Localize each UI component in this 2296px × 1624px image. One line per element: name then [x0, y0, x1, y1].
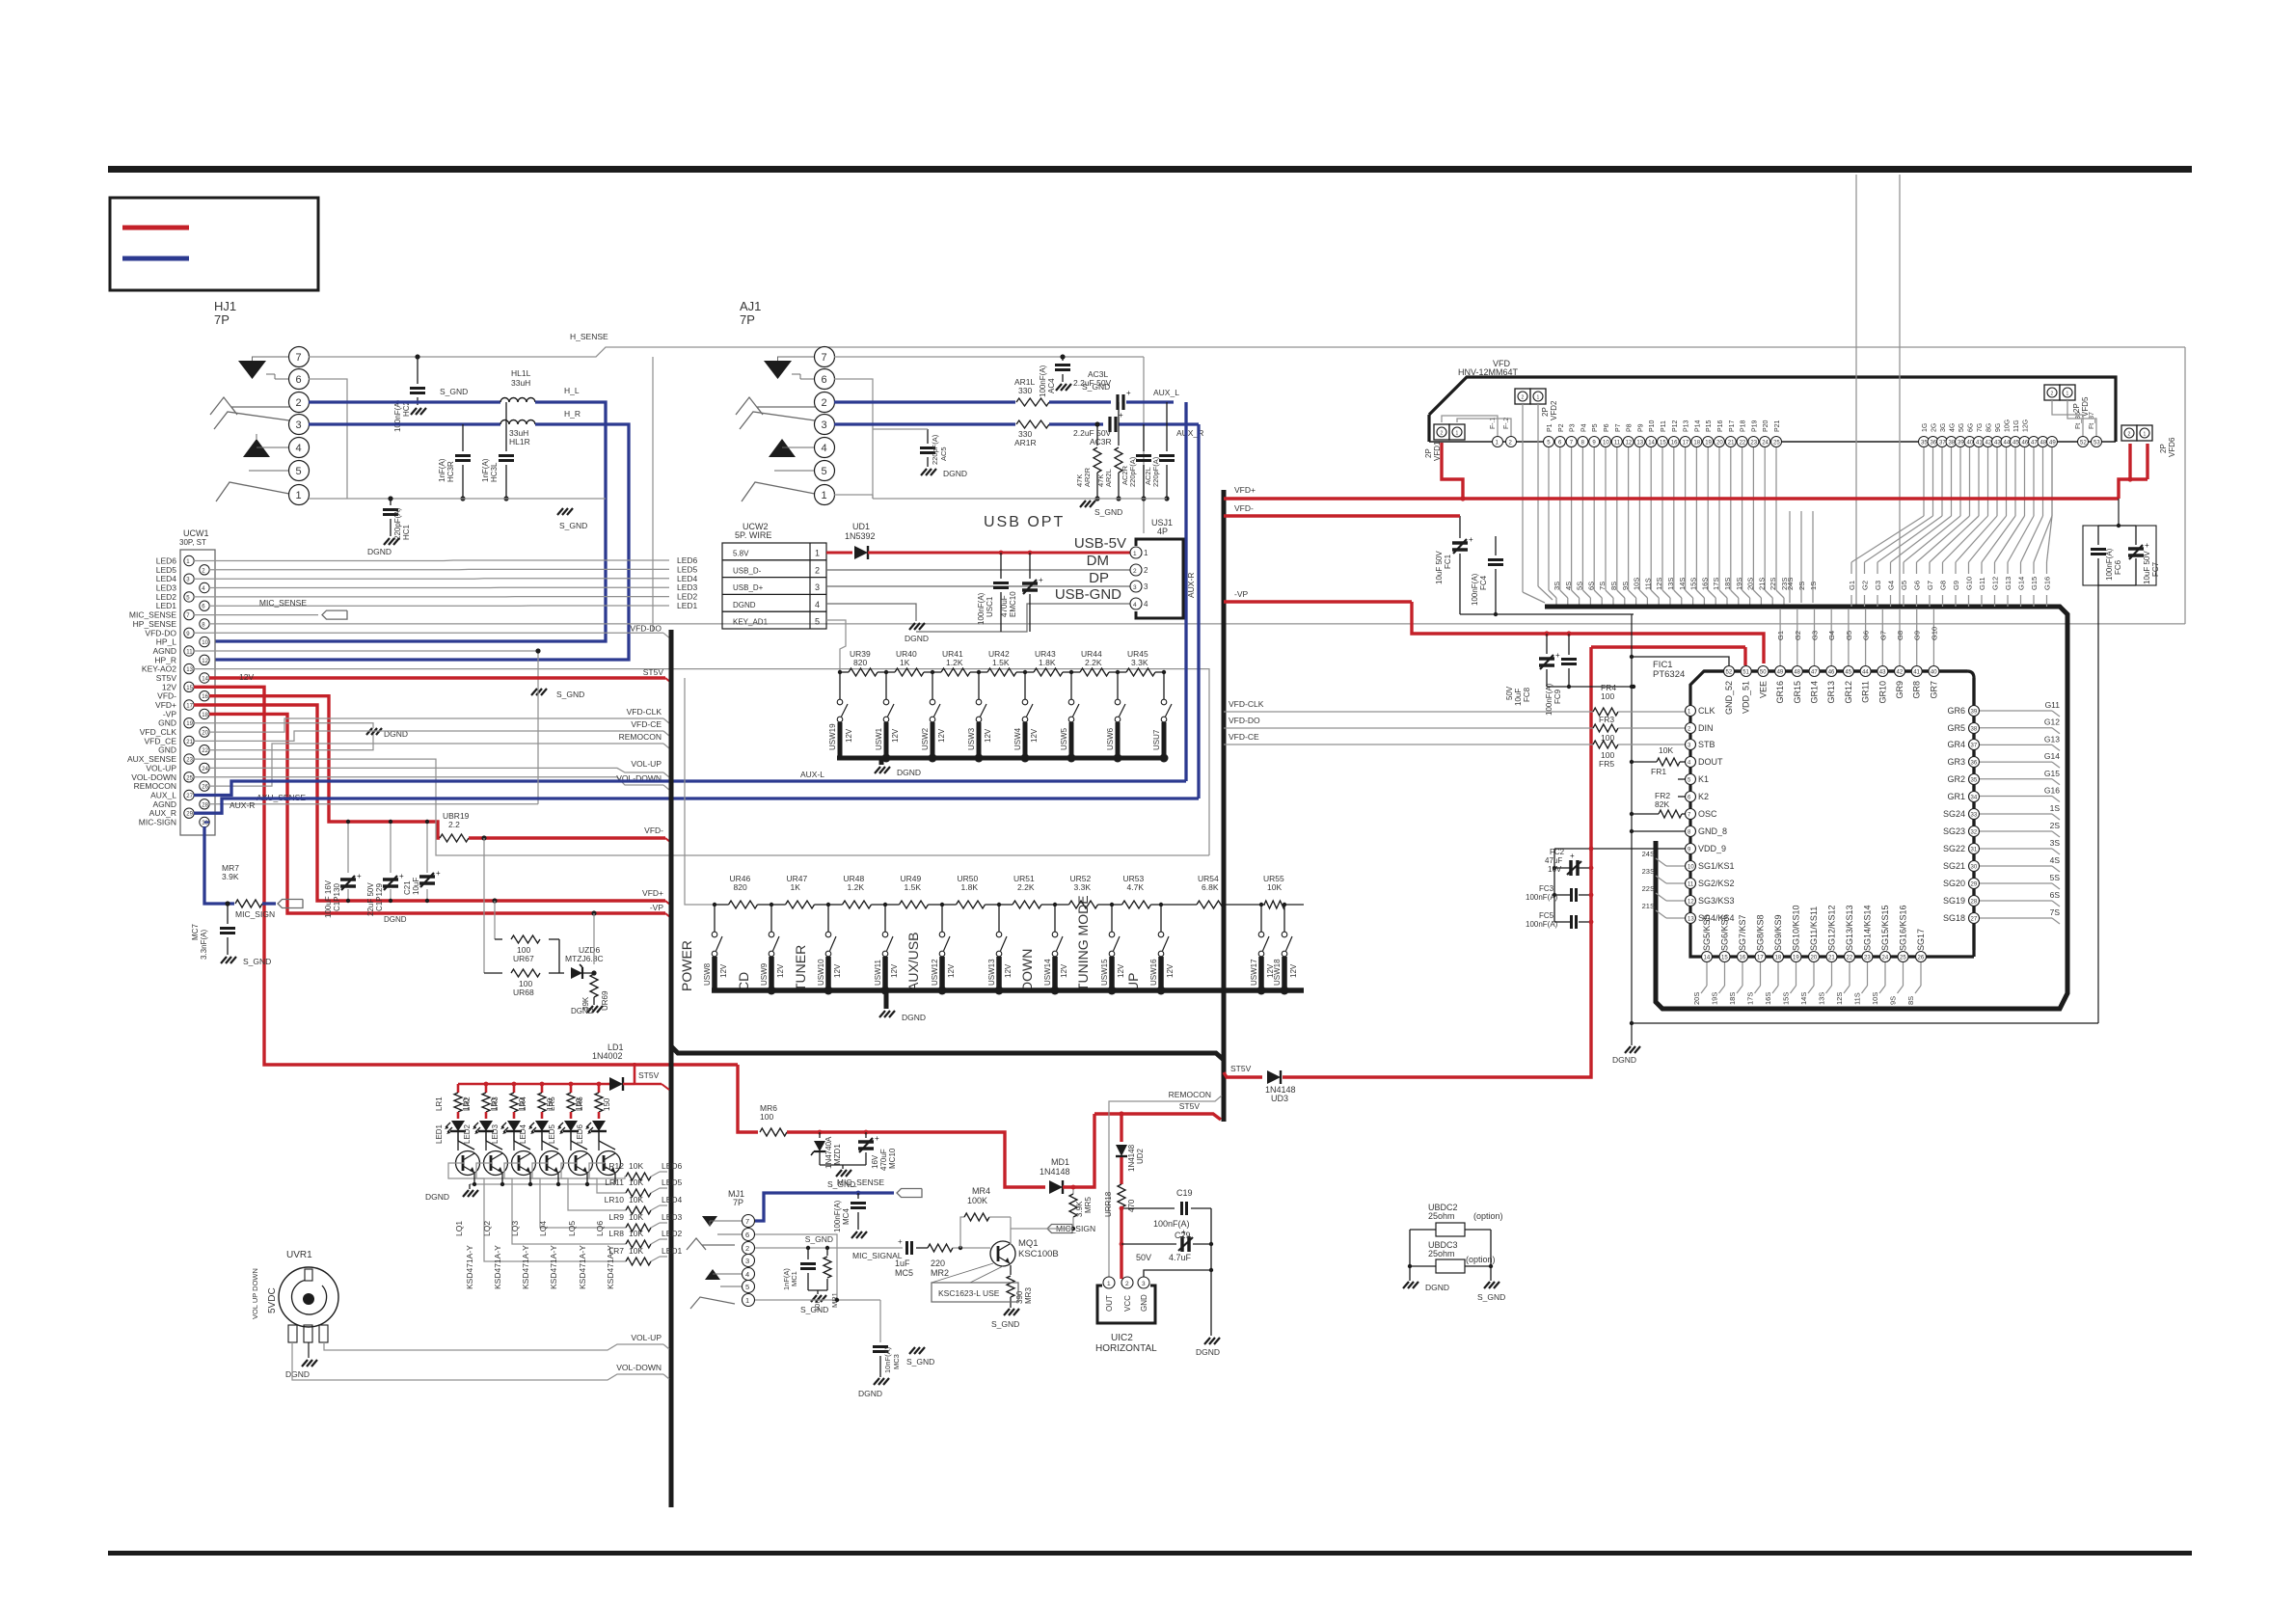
svg-text:UD1: UD1	[852, 522, 870, 531]
svg-text:KSD471A-Y: KSD471A-Y	[493, 1245, 502, 1289]
IC PT6324 pin 16 SG7/KS7	[1738, 952, 1748, 962]
svg-text:VDD_9: VDD_9	[1698, 844, 1726, 853]
resistor LR12 10K	[626, 1173, 651, 1180]
resistor FR2 82K OSC	[1632, 813, 1659, 815]
IC PT6324 pin 12 SG3/KS3	[1686, 896, 1696, 907]
svg-text:18: 18	[1775, 956, 1782, 961]
wire base LQ3	[504, 1163, 626, 1228]
svg-text:LR12: LR12	[605, 1161, 625, 1171]
capacitor MC10 470uF	[864, 1130, 869, 1135]
svg-text:GND_52: GND_52	[1724, 681, 1734, 715]
svg-text:P16: P16	[1717, 420, 1724, 432]
LED LED2	[479, 1121, 493, 1131]
svg-text:LR8: LR8	[608, 1229, 624, 1238]
svg-text:14: 14	[1648, 441, 1655, 447]
svg-text:G15: G15	[2044, 769, 2060, 778]
svg-text:VFD-: VFD-	[1234, 503, 1254, 513]
ground S_GND at AC4	[1056, 384, 1062, 391]
wire VOL-UP pin24	[209, 768, 663, 772]
svg-text:VDD_51: VDD_51	[1742, 681, 1751, 714]
IC PT6324 pin 33 SG24	[1969, 809, 1980, 820]
svg-text:1.8K: 1.8K	[961, 882, 979, 892]
switch USW11	[884, 905, 886, 932]
svg-text:FR3: FR3	[1599, 715, 1614, 724]
switch USU7	[1163, 672, 1165, 699]
svg-text:FC7: FC7	[2151, 561, 2160, 577]
ground S_GND below MC7	[221, 957, 227, 963]
svg-text:19: 19	[1793, 956, 1799, 961]
svg-text:MTZJ6.8C: MTZJ6.8C	[565, 954, 604, 963]
ground DGND UVR1	[302, 1360, 308, 1367]
svg-text:VFD+: VFD+	[642, 888, 663, 898]
resistor AR2L 47K	[1118, 402, 1120, 446]
resistor MR2 220	[916, 1247, 928, 1249]
connector UCW1 pin 6	[200, 601, 209, 610]
transistor LQ5 KSD471A-Y	[569, 1151, 593, 1176]
switch USW16	[1160, 905, 1162, 932]
svg-text:23: 23	[1750, 441, 1757, 447]
svg-text:USW19: USW19	[828, 723, 837, 750]
svg-text:SG14/KS14: SG14/KS14	[1863, 905, 1873, 951]
wire AUX-L blue vertical	[1184, 402, 1187, 781]
svg-text:1N4148: 1N4148	[1040, 1167, 1070, 1177]
ground DGND below UR69	[587, 1006, 593, 1013]
svg-text:USB_D+: USB_D+	[733, 583, 764, 592]
svg-text:DGND: DGND	[897, 768, 921, 777]
wire ST5V red pin14	[209, 676, 665, 679]
svg-text:STB: STB	[1698, 740, 1715, 749]
svg-text:P11: P11	[1661, 420, 1667, 432]
switch USW15	[1111, 905, 1113, 932]
IC UIC2 pin 3 GND	[1138, 1277, 1149, 1288]
resistor UR68 100	[511, 969, 540, 977]
wire right side 1S-7S tags	[1980, 813, 2052, 815]
bus VFD S thick	[1545, 607, 2067, 1009]
svg-text:8G: 8G	[1986, 423, 1993, 432]
svg-text:VFD-CLK: VFD-CLK	[1229, 699, 1264, 709]
IC PT6324 pin 8 GND_8	[1686, 826, 1696, 837]
svg-text:USW2: USW2	[921, 727, 930, 750]
svg-text:SG21: SG21	[1943, 861, 1965, 871]
svg-text:100: 100	[760, 1112, 773, 1122]
wire FC6 FC7 gnd down	[2098, 584, 2136, 586]
svg-text:3: 3	[815, 582, 820, 592]
svg-text:SG23: SG23	[1943, 826, 1965, 836]
svg-text:VOL-DOWN: VOL-DOWN	[616, 1363, 662, 1372]
svg-text:G12: G12	[1991, 577, 2000, 590]
resistor UR69 39K	[590, 974, 598, 997]
wire VFD2 connector leads	[1522, 404, 1524, 592]
svg-text:24: 24	[202, 767, 208, 772]
svg-text:SG17: SG17	[1916, 929, 1926, 951]
svg-text:10uF: 10uF	[412, 878, 420, 895]
wire 24S 2S 1S drops	[1789, 511, 1791, 603]
wire REMOCON pin26	[209, 744, 663, 786]
wire G-lines above chip	[1779, 609, 1781, 665]
wire HJ1 jack leads	[252, 356, 288, 358]
resistor AR2R 47K	[1096, 424, 1098, 446]
svg-text:MC10: MC10	[888, 1148, 897, 1169]
svg-text:USW8: USW8	[703, 962, 712, 986]
svg-text:+: +	[1039, 576, 1043, 584]
svg-text:7P: 7P	[733, 1198, 743, 1207]
svg-text:3.3nF(A): 3.3nF(A)	[200, 930, 208, 960]
resistor UR52 3.3K	[1055, 904, 1069, 906]
svg-text:4.7uF: 4.7uF	[1169, 1253, 1192, 1262]
svg-text:DGND: DGND	[384, 915, 407, 924]
wire VFD_CLK pin20	[209, 718, 663, 732]
svg-text:AUX_L: AUX_L	[1153, 388, 1179, 397]
svg-text:15S: 15S	[1782, 992, 1791, 1005]
svg-text:P3: P3	[1570, 423, 1577, 432]
page border top rule	[108, 166, 2192, 173]
IC PT6324 pin 27 SG18	[1969, 913, 1980, 924]
wire base LQ4	[532, 1163, 626, 1210]
svg-text:2: 2	[1144, 566, 1148, 575]
connector AJ1 pin 7	[815, 347, 835, 367]
svg-text:1: 1	[2066, 392, 2069, 397]
svg-text:FC5: FC5	[1539, 911, 1554, 920]
wire VFD+ to VFD6 connector	[2119, 479, 2147, 499]
svg-text:49: 49	[2049, 441, 2056, 447]
svg-text:MC1: MC1	[790, 1271, 798, 1286]
svg-text:20S: 20S	[1692, 992, 1701, 1005]
wire VOL-DOWN from UVR1	[292, 1342, 663, 1380]
svg-text:HC1: HC1	[402, 524, 411, 540]
svg-text:SG2/KS2: SG2/KS2	[1698, 879, 1735, 888]
svg-text:100nF(A): 100nF(A)	[1039, 365, 1047, 397]
IC PT6324 pin 44 GR11	[1860, 666, 1871, 677]
connector UCW1 pin 18	[200, 709, 209, 718]
wire USB-5V red to USJ1	[868, 552, 1130, 555]
svg-text:G6: G6	[1913, 581, 1922, 590]
resistor FR1 10K DOUT	[1632, 761, 1657, 763]
svg-text:VCC: VCC	[1123, 1295, 1132, 1312]
svg-text:USB OPT: USB OPT	[984, 514, 1065, 530]
svg-text:AJ1: AJ1	[740, 299, 761, 313]
wire VOL-UP from UVR1	[324, 1342, 663, 1350]
svg-text:P12: P12	[1672, 420, 1679, 432]
svg-text:820: 820	[734, 882, 747, 892]
svg-text:15: 15	[186, 686, 193, 691]
svg-text:LQ5: LQ5	[567, 1221, 577, 1236]
IC PT6324 pin 38 GR5	[1969, 723, 1980, 734]
switch USW17	[1260, 905, 1262, 932]
wire GND vertical 1692	[1631, 614, 1633, 1045]
wire base net LED3	[651, 1223, 660, 1228]
LED LED6	[592, 1121, 606, 1131]
svg-text:1: 1	[296, 490, 302, 501]
svg-text:K2: K2	[1698, 792, 1709, 801]
wire H_L blue HJ1 pin2	[309, 400, 500, 403]
svg-text:USW1: USW1	[875, 727, 883, 750]
svg-text:P21: P21	[1774, 420, 1781, 432]
svg-text:SG15/KS15: SG15/KS15	[1880, 905, 1890, 951]
svg-text:SG20: SG20	[1943, 879, 1965, 888]
svg-text:2G: 2G	[1931, 423, 1938, 432]
svg-text:10: 10	[1603, 441, 1609, 447]
capacitor AC3R	[1108, 417, 1111, 432]
svg-text:2.2K: 2.2K	[1017, 882, 1035, 892]
svg-text:10K: 10K	[1659, 745, 1673, 755]
transistor MQ1 KSC100B	[990, 1241, 1015, 1266]
svg-text:12V: 12V	[937, 728, 946, 743]
svg-text:DGND: DGND	[905, 634, 929, 643]
connector HJ1 pin 3	[289, 415, 310, 435]
wire MIC signal from MJ1 pin2	[755, 1247, 903, 1249]
IC PT6324 pin 49 GR16	[1775, 666, 1786, 677]
svg-text:22: 22	[1847, 956, 1853, 961]
IC PT6324 pin 31 SG22	[1969, 844, 1980, 854]
ground S_GND below MC1 MR1	[808, 1289, 827, 1291]
ground DGND below MC3	[874, 1378, 879, 1385]
svg-text:12V: 12V	[891, 728, 900, 743]
svg-text:KSD471A-Y: KSD471A-Y	[465, 1245, 474, 1289]
ground S_GND below MR3	[1010, 1297, 1012, 1308]
svg-text:39: 39	[1958, 441, 1964, 447]
connector HJ1 pin 2	[289, 392, 310, 413]
svg-text:LED1: LED1	[662, 1246, 683, 1256]
svg-text:16S: 16S	[1764, 992, 1772, 1005]
svg-text:47: 47	[2031, 441, 2038, 447]
svg-text:2: 2	[1441, 431, 1444, 437]
connector UCW1 pin 20	[200, 727, 209, 737]
svg-text:GR16: GR16	[1775, 681, 1785, 704]
svg-text:LED2: LED2	[463, 1123, 472, 1144]
svg-text:G10: G10	[1930, 627, 1938, 640]
svg-text:18S: 18S	[1728, 992, 1737, 1005]
svg-text:LR7: LR7	[608, 1246, 624, 1256]
svg-text:6: 6	[822, 374, 827, 386]
svg-text:4P: 4P	[1157, 527, 1168, 536]
connector HJ1 pin 1	[289, 485, 310, 505]
svg-text:1G: 1G	[1922, 423, 1929, 432]
svg-text:AUX/USB: AUX/USB	[905, 933, 921, 991]
wire KEY-AO2 pin13	[194, 668, 1209, 670]
svg-text:VFD-CLK: VFD-CLK	[627, 707, 662, 717]
svg-text:29: 29	[1971, 882, 1978, 888]
svg-text:470uF: 470uF	[879, 1149, 888, 1171]
svg-text:1N5392: 1N5392	[845, 531, 876, 541]
IC UIC2 pin 2 VCC	[1121, 1277, 1133, 1288]
capacitor HC3L	[505, 402, 507, 451]
svg-text:MC7: MC7	[191, 924, 200, 940]
svg-text:7G: 7G	[1977, 423, 1984, 432]
resistor LR4 150	[541, 1084, 544, 1093]
connector UCW1 pin 17	[184, 700, 194, 710]
resistor FR5 100	[1593, 741, 1618, 748]
svg-text:USW15: USW15	[1100, 959, 1109, 986]
svg-text:29: 29	[186, 812, 193, 818]
svg-text:5.8V: 5.8V	[733, 550, 749, 558]
svg-text:12V: 12V	[1117, 963, 1125, 978]
wire USW3 to bus	[977, 722, 982, 758]
svg-text:5P. WIRE: 5P. WIRE	[735, 530, 771, 540]
svg-text:2P: 2P	[2072, 403, 2081, 413]
svg-text:820: 820	[853, 658, 867, 667]
svg-text:FR1: FR1	[1651, 767, 1666, 776]
connector UCW1 pin 27	[184, 790, 194, 799]
svg-text:4: 4	[1144, 600, 1148, 609]
svg-text:SG9/KS9: SG9/KS9	[1773, 914, 1783, 951]
svg-text:2S: 2S	[2050, 821, 2061, 830]
resistor LR6 150	[598, 1084, 601, 1093]
svg-text:22S: 22S	[1642, 884, 1655, 893]
connector 2P VFD1	[1434, 424, 1449, 440]
svg-text:220pF(A): 220pF(A)	[1128, 456, 1137, 487]
svg-text:MR5: MR5	[1084, 1197, 1093, 1213]
wire VFD- red to bus	[469, 836, 665, 839]
svg-text:49: 49	[1777, 670, 1784, 676]
svg-text:2: 2	[1133, 568, 1137, 575]
svg-text:25ohm: 25ohm	[1428, 1249, 1455, 1259]
svg-text:P10: P10	[1649, 420, 1656, 432]
svg-text:19: 19	[186, 721, 193, 727]
svg-text:35: 35	[1921, 441, 1928, 447]
svg-text:7S: 7S	[2050, 907, 2061, 917]
svg-text:2: 2	[2051, 392, 2054, 397]
IC PT6324 pin 35 GR2	[1969, 774, 1980, 785]
thick bus below key switches	[712, 988, 1304, 993]
svg-text:38: 38	[1949, 441, 1956, 447]
svg-text:31: 31	[1971, 848, 1978, 853]
svg-text:USB-GND: USB-GND	[1055, 586, 1121, 603]
resistor FR4 100	[1593, 708, 1618, 716]
svg-text:SG13/KS13: SG13/KS13	[1845, 905, 1854, 951]
svg-text:GR3: GR3	[1947, 757, 1965, 767]
svg-text:GR10: GR10	[1877, 681, 1887, 704]
svg-text:12V: 12V	[776, 963, 785, 978]
wire VFD- red right	[1224, 514, 1460, 517]
diode UD2 1N4148 vertical	[1116, 1145, 1127, 1156]
svg-text:DP: DP	[1089, 570, 1109, 586]
svg-text:7: 7	[822, 352, 827, 364]
ground S_GND mid	[531, 689, 537, 695]
connector UCW1 pin 7	[184, 609, 194, 619]
resistor UR47 1K	[771, 904, 786, 906]
wire MR2 to MQ1 base	[953, 1247, 990, 1249]
capacitor MC4 100nF	[856, 1191, 861, 1196]
capacitor C29 4.7uF	[1120, 1242, 1124, 1247]
svg-text:11: 11	[1688, 882, 1694, 888]
LED LED5	[564, 1121, 578, 1131]
resistor UR51 2.2K	[999, 904, 1013, 906]
capacitor MC7 3.3nF	[227, 904, 229, 924]
svg-text:3: 3	[1144, 582, 1148, 591]
switch USW13	[998, 905, 1000, 932]
svg-text:470uF: 470uF	[1000, 595, 1009, 617]
wire H_R blue HJ1 pin3	[309, 422, 500, 425]
switch USW19	[839, 672, 841, 699]
resistor UR67 100	[511, 935, 540, 943]
diode UD3 1N4148	[1267, 1070, 1281, 1084]
svg-text:G13: G13	[2044, 734, 2060, 744]
svg-text:VOL UP DOWN: VOL UP DOWN	[251, 1268, 259, 1319]
svg-text:10: 10	[1688, 865, 1694, 871]
capacitor HC2	[417, 357, 419, 384]
wire 12V red pin15	[194, 687, 738, 1065]
svg-text:GR4: GR4	[1947, 740, 1965, 749]
svg-text:5G: 5G	[1958, 423, 1965, 432]
svg-text:SG16/KS16: SG16/KS16	[1899, 905, 1908, 951]
wire USW8 to bus	[712, 957, 717, 990]
svg-text:12V: 12V	[845, 728, 853, 743]
connector HJ1 pin 7	[289, 347, 310, 367]
wire VFD+ red pin17	[194, 705, 665, 901]
svg-text:44: 44	[1862, 670, 1869, 676]
ground DGND mid	[366, 728, 372, 735]
wire red ST5V chamfer to bus	[635, 1083, 662, 1086]
svg-text:VFD-DO: VFD-DO	[1229, 716, 1260, 725]
svg-text:G1: G1	[1776, 631, 1785, 640]
svg-text:1.5K: 1.5K	[992, 658, 1010, 667]
wire USW16 to bus	[1158, 957, 1164, 990]
svg-text:100nF(A): 100nF(A)	[833, 1200, 842, 1232]
switch USW9	[770, 905, 772, 932]
wire emitter LQ2	[501, 1174, 503, 1184]
svg-text:3.9K: 3.9K	[222, 872, 239, 881]
IC PT6324 pin 45 GR12	[1843, 666, 1853, 677]
switch USW8	[714, 905, 716, 932]
svg-text:GND_8: GND_8	[1698, 826, 1727, 836]
svg-text:G14: G14	[2017, 577, 2026, 590]
svg-text:G8: G8	[1896, 631, 1904, 640]
svg-text:16: 16	[1671, 441, 1678, 447]
svg-text:G7: G7	[1926, 581, 1934, 590]
connector UCW1 pin 28	[200, 799, 209, 809]
wire AJ1 pin1 rail	[834, 494, 873, 496]
resistor UR41 1.2K	[932, 671, 941, 673]
svg-text:4: 4	[1133, 602, 1137, 609]
svg-text:18: 18	[202, 713, 208, 718]
switch USW1	[885, 672, 887, 699]
svg-text:H_R: H_R	[564, 409, 581, 419]
connector MJ1 pin 4	[743, 1268, 755, 1281]
connector UCW1 pin 11	[184, 646, 194, 656]
svg-text:1: 1	[1456, 431, 1459, 437]
svg-text:26: 26	[1918, 956, 1925, 961]
svg-text:KEY_AD1: KEY_AD1	[733, 618, 769, 627]
svg-text:S_GND: S_GND	[440, 387, 468, 396]
capacitor MC5 1uF series	[905, 1241, 908, 1255]
svg-text:P18: P18	[1741, 420, 1747, 432]
svg-text:HJ1: HJ1	[214, 299, 236, 313]
capacitor HC3R	[462, 424, 464, 451]
wire LED6 from UCW1	[194, 559, 669, 562]
svg-text:G14: G14	[2044, 751, 2060, 761]
svg-text:100nF(A): 100nF(A)	[393, 399, 402, 432]
svg-text:FC9: FC9	[1553, 689, 1562, 704]
wire AJ1 pin6 down	[834, 379, 873, 499]
svg-text:2: 2	[1522, 395, 1525, 401]
svg-text:2P: 2P	[1541, 407, 1550, 417]
svg-text:USW16: USW16	[1149, 959, 1158, 986]
svg-text:+: +	[399, 872, 404, 880]
svg-text:4: 4	[296, 443, 302, 454]
IC PT6324 pin 13 SG4/KS4	[1686, 913, 1696, 924]
capacitor HC1	[390, 499, 392, 505]
svg-text:8S: 8S	[1906, 996, 1915, 1005]
svg-text:100nF(A): 100nF(A)	[1545, 683, 1553, 716]
IC PT6324 pin 25 SG16/KS16	[1898, 952, 1908, 962]
inductor HL1L	[500, 398, 509, 403]
wire thin box left edge	[652, 357, 654, 632]
svg-text:16: 16	[1740, 956, 1746, 961]
switch USW18	[1283, 905, 1285, 932]
transistor LQ6 KSD471A-Y	[597, 1151, 621, 1176]
svg-text:6.8K: 6.8K	[1202, 882, 1219, 892]
svg-text:GR1: GR1	[1947, 792, 1965, 801]
